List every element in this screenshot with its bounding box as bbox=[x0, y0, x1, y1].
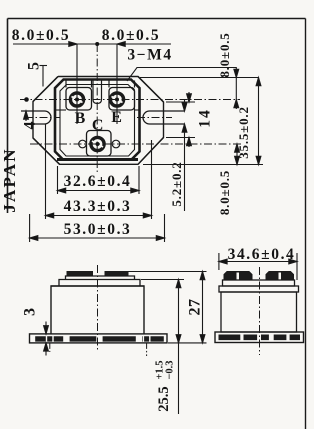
dim 5.2 line bbox=[184, 100, 186, 211]
svg-text:JAPAN: JAPAN bbox=[0, 147, 19, 212]
dim 5 tick bbox=[40, 65, 48, 67]
dim 4 arrow bbox=[24, 111, 29, 119]
side base outline bbox=[215, 332, 304, 343]
svg-text:3: 3 bbox=[22, 308, 39, 316]
dim 32.6 line bbox=[58, 190, 140, 192]
lobe right of C bbox=[112, 140, 120, 148]
ext 27 top bbox=[129, 271, 207, 273]
right ear slot bbox=[143, 111, 185, 124]
front slot centerline right bbox=[146, 343, 148, 356]
svg-text:53.0±0.3: 53.0±0.3 bbox=[64, 221, 132, 238]
outer base plate outline bbox=[33, 77, 164, 165]
dim 8.0 right arrows bbox=[234, 69, 239, 77]
front centerline vertical bbox=[97, 265, 99, 351]
border frame right bbox=[305, 19, 307, 429]
dim 8.0 right line bbox=[235, 67, 237, 109]
side screw bump slit right bbox=[279, 273, 282, 280]
front slot centerline left bbox=[49, 343, 51, 352]
leader 3-M4 bbox=[127, 68, 236, 82]
screw E slit bbox=[112, 97, 123, 103]
front base dark bar bbox=[35, 336, 164, 341]
side body bbox=[221, 292, 297, 332]
svg-text:B: B bbox=[75, 110, 86, 127]
screw C ring bbox=[91, 137, 104, 150]
center notch between B and E bbox=[93, 80, 102, 104]
lobe left of C bbox=[79, 140, 87, 148]
dim 43.3 arrows bbox=[46, 213, 54, 218]
side centerline vertical bbox=[259, 267, 261, 355]
side screw bump slit left bbox=[237, 273, 240, 280]
dim 8.0 top line bbox=[13, 43, 171, 45]
terminal recess E bbox=[109, 88, 135, 111]
dim 43.3 line bbox=[46, 215, 152, 217]
ext 25.5 top bbox=[141, 279, 184, 281]
screw C slit bbox=[92, 141, 103, 147]
terminal recess C bbox=[87, 131, 112, 157]
ext line E vertical bbox=[116, 44, 118, 124]
dim 53.0 ext lines bbox=[30, 214, 165, 242]
dim 35.5 arrows bbox=[256, 78, 261, 86]
side dim 34.6 line bbox=[219, 261, 297, 263]
svg-text:E: E bbox=[111, 109, 122, 126]
svg-text:43.3±0.3: 43.3±0.3 bbox=[64, 198, 132, 215]
centerline right slot bbox=[137, 117, 172, 119]
ext top edge right bbox=[140, 77, 259, 79]
dim 8.0 top arrows bbox=[69, 42, 77, 47]
front cap bbox=[59, 280, 140, 287]
front base outline bbox=[30, 334, 168, 343]
side base dark bar bbox=[219, 334, 301, 340]
dim 27 arrows bbox=[200, 272, 205, 280]
left ear outline bbox=[33, 77, 60, 165]
case inner thin outline bbox=[60, 85, 135, 157]
dim 35.5 line bbox=[258, 78, 260, 165]
svg-text:8.0±0.5: 8.0±0.5 bbox=[102, 27, 160, 44]
dim 8.0 bottom-right line bbox=[236, 144, 238, 165]
svg-text:14: 14 bbox=[197, 108, 214, 128]
svg-text:8.0±0.5: 8.0±0.5 bbox=[12, 27, 70, 44]
border frame left bbox=[7, 19, 9, 214]
svg-text:C: C bbox=[92, 117, 104, 134]
recess wall verticals to case top bbox=[66, 81, 135, 88]
dim 14 ext top bbox=[166, 101, 195, 103]
svg-text:5.2±0.2: 5.2±0.2 bbox=[169, 161, 184, 206]
centerline C horizontal bbox=[30, 143, 242, 145]
left ear slot bbox=[21, 111, 51, 124]
right ear outline bbox=[138, 77, 164, 165]
svg-text:4: 4 bbox=[22, 122, 39, 130]
case outer thick outline bbox=[55, 80, 140, 160]
front lid bbox=[66, 276, 135, 280]
front body bbox=[51, 286, 144, 334]
svg-text:5: 5 bbox=[26, 62, 43, 70]
side lid bbox=[223, 280, 295, 286]
screw E ring bbox=[110, 93, 123, 106]
dim 32.6 arrows bbox=[58, 188, 66, 193]
dim 3 arrows bbox=[44, 326, 49, 334]
dim 25.5 arrows bbox=[176, 280, 181, 288]
side screw bump B/E bbox=[224, 272, 252, 281]
dot on centerline left bbox=[24, 97, 29, 102]
dim 32.6 ext lines bbox=[58, 166, 140, 194]
svg-text:34.6±0.4: 34.6±0.4 bbox=[228, 246, 296, 263]
svg-text:8.0±0.5: 8.0±0.5 bbox=[217, 170, 232, 215]
recess floor line left bbox=[55, 109, 66, 111]
front body top line bbox=[51, 285, 144, 287]
dim 14 ext bottom bbox=[166, 137, 195, 139]
side cap bbox=[219, 286, 299, 292]
terminal recess B bbox=[66, 88, 92, 111]
border frame top bbox=[8, 18, 306, 20]
svg-text:25.5: 25.5 bbox=[156, 386, 172, 411]
svg-text:3−M4: 3−M4 bbox=[127, 47, 172, 64]
side dim 34.6 arrows bbox=[219, 259, 227, 264]
svg-text:8.0±0.5: 8.0±0.5 bbox=[217, 32, 232, 77]
dim 8.0 top center dot bbox=[95, 42, 99, 46]
ext line B vertical bbox=[76, 44, 78, 124]
svg-text:32.6±0.4: 32.6±0.4 bbox=[64, 173, 132, 190]
ext 27 bottom bbox=[168, 342, 207, 344]
dim 3 line bbox=[45, 322, 47, 356]
dim 27 line bbox=[202, 272, 204, 343]
dim 5 line bbox=[42, 66, 44, 87]
svg-text:−0.3: −0.3 bbox=[165, 360, 176, 379]
recess floor line right bbox=[135, 109, 140, 111]
svg-text:27: 27 bbox=[187, 299, 204, 316]
screw B center bbox=[75, 98, 79, 102]
front screw strip B bbox=[67, 271, 94, 276]
side dim 34.6 ext lines bbox=[219, 253, 297, 280]
centerline vertical bbox=[96, 44, 98, 172]
dim 53.0 arrows bbox=[30, 236, 38, 241]
centerline B/E horizontal bbox=[20, 99, 240, 101]
dim 4 line below bbox=[25, 111, 27, 121]
screw E center bbox=[115, 98, 119, 102]
case bottom thick band bbox=[57, 158, 138, 161]
dim 53.0 line bbox=[30, 237, 165, 239]
dim 5.2 arrows bbox=[182, 103, 187, 111]
side screw bump C bbox=[266, 272, 294, 281]
ext bottom edge right bbox=[143, 164, 263, 166]
dim 14 arrows bbox=[187, 94, 192, 102]
screw B ring bbox=[70, 93, 83, 106]
front base slot ticks bbox=[47, 336, 150, 342]
screw C center bbox=[96, 142, 100, 146]
dim 25.5 line bbox=[178, 280, 180, 415]
centerline left slot bbox=[25, 117, 60, 119]
dim 43.3 ext lines bbox=[46, 124, 152, 219]
dim 8.0 bottom-right arrows bbox=[235, 144, 240, 152]
screw B slit bbox=[72, 97, 83, 103]
front screw strip E bbox=[105, 271, 129, 276]
dim 14 line bbox=[188, 92, 190, 147]
